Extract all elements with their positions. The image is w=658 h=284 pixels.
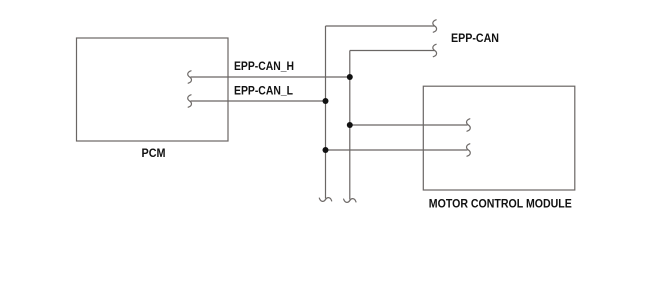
svg-text:PCM: PCM bbox=[142, 146, 166, 160]
svg-text:MOTOR CONTROL MODULE: MOTOR CONTROL MODULE bbox=[429, 197, 572, 211]
svg-text:EPP-CAN_H: EPP-CAN_H bbox=[234, 59, 294, 73]
svg-text:EPP-CAN: EPP-CAN bbox=[451, 31, 499, 45]
svg-text:EPP-CAN_L: EPP-CAN_L bbox=[234, 84, 293, 98]
